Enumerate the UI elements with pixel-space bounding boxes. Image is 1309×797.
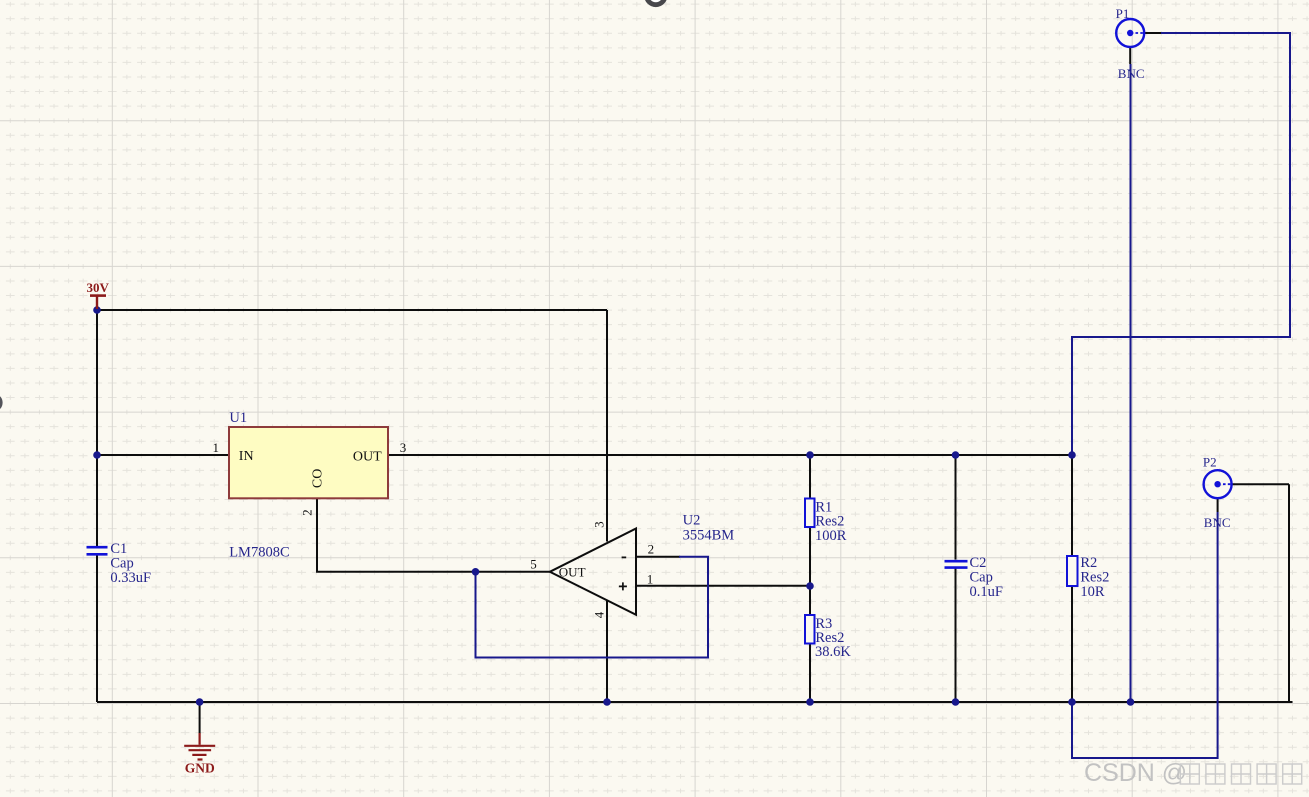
svg-text:5: 5 [530, 557, 537, 572]
svg-text:1: 1 [213, 440, 220, 455]
svg-text:0.33uF: 0.33uF [110, 570, 151, 586]
svg-text:10R: 10R [1080, 584, 1105, 600]
svg-text:BNC: BNC [1204, 515, 1231, 530]
svg-text:U1: U1 [229, 410, 247, 426]
svg-text:OUT: OUT [353, 449, 382, 464]
svg-text:30V: 30V [87, 280, 110, 295]
svg-text:IN: IN [239, 449, 254, 464]
svg-text:2: 2 [648, 542, 655, 557]
svg-text:3: 3 [591, 521, 606, 528]
svg-text:0.1uF: 0.1uF [970, 584, 1003, 600]
svg-text:BNC: BNC [1118, 66, 1145, 81]
svg-text:100R: 100R [815, 528, 847, 544]
svg-text:LM7808C: LM7808C [229, 545, 289, 561]
svg-text:GND: GND [185, 760, 215, 775]
svg-text:CO: CO [311, 469, 326, 488]
svg-text:OUT: OUT [559, 564, 586, 579]
svg-text:U2: U2 [683, 513, 701, 529]
svg-text:P2: P2 [1203, 455, 1217, 470]
svg-text:CSDN @: CSDN @ [1084, 759, 1187, 787]
svg-text:P1: P1 [1116, 6, 1130, 21]
svg-text:38.6K: 38.6K [815, 644, 851, 660]
svg-text:2: 2 [299, 509, 314, 516]
svg-text:3: 3 [400, 440, 407, 455]
svg-text:1: 1 [647, 572, 654, 587]
svg-text:3554BM: 3554BM [683, 528, 735, 544]
svg-text:4: 4 [591, 611, 606, 618]
